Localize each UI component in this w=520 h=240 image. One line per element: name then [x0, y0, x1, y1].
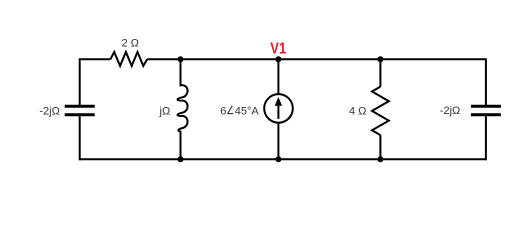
svg-text:45°A: 45°A: [235, 105, 260, 117]
current source bottom lead: [277, 123, 279, 160]
wire right branch upper stub: [485, 58, 487, 105]
label 6∠45°A : angle symbol: [228, 106, 234, 114]
svg-text:jΩ: jΩ: [159, 105, 171, 117]
wire bottom rail: [80, 158, 486, 160]
svg-text:4 Ω: 4 Ω: [349, 105, 366, 117]
resistor R2 4Ω bottom lead: [379, 135, 381, 159]
svg-text:-2jΩ: -2jΩ: [39, 105, 59, 117]
svg-text:-2jΩ: -2jΩ: [440, 105, 460, 117]
node dot top at inductor: [178, 56, 184, 62]
capacitor C2 -2jΩ plates (right): [471, 106, 501, 115]
wire top rail: [147, 58, 486, 60]
inductor L1 jΩ: [178, 59, 188, 159]
node dot top at 4Ω resistor: [377, 56, 383, 62]
wire top-left lead: [80, 58, 111, 60]
wire right branch lower stub: [485, 116, 487, 160]
svg-text:6: 6: [220, 105, 226, 117]
svg-text:V1: V1: [270, 41, 286, 58]
resistor R2 4Ω zigzag: [372, 87, 389, 136]
capacitor C1 -2jΩ plates (left): [65, 106, 95, 115]
resistor R1 2Ω zigzag: [110, 52, 147, 66]
resistor R2 4Ω top lead: [379, 59, 381, 86]
node dot bottom at 4Ω resistor: [377, 156, 383, 162]
current source I1 circle: [264, 94, 293, 123]
svg-text:2 Ω: 2 Ω: [122, 37, 139, 49]
current source top lead: [277, 59, 279, 94]
node dot top at source (node V1): [275, 56, 281, 62]
current source arrow head: [275, 97, 282, 106]
node dot bottom at inductor: [178, 156, 184, 162]
wire left branch upper stub: [79, 58, 81, 105]
current source arrow shaft: [277, 105, 279, 119]
wire left branch lower stub: [79, 116, 81, 160]
node dot bottom at source: [275, 156, 281, 162]
